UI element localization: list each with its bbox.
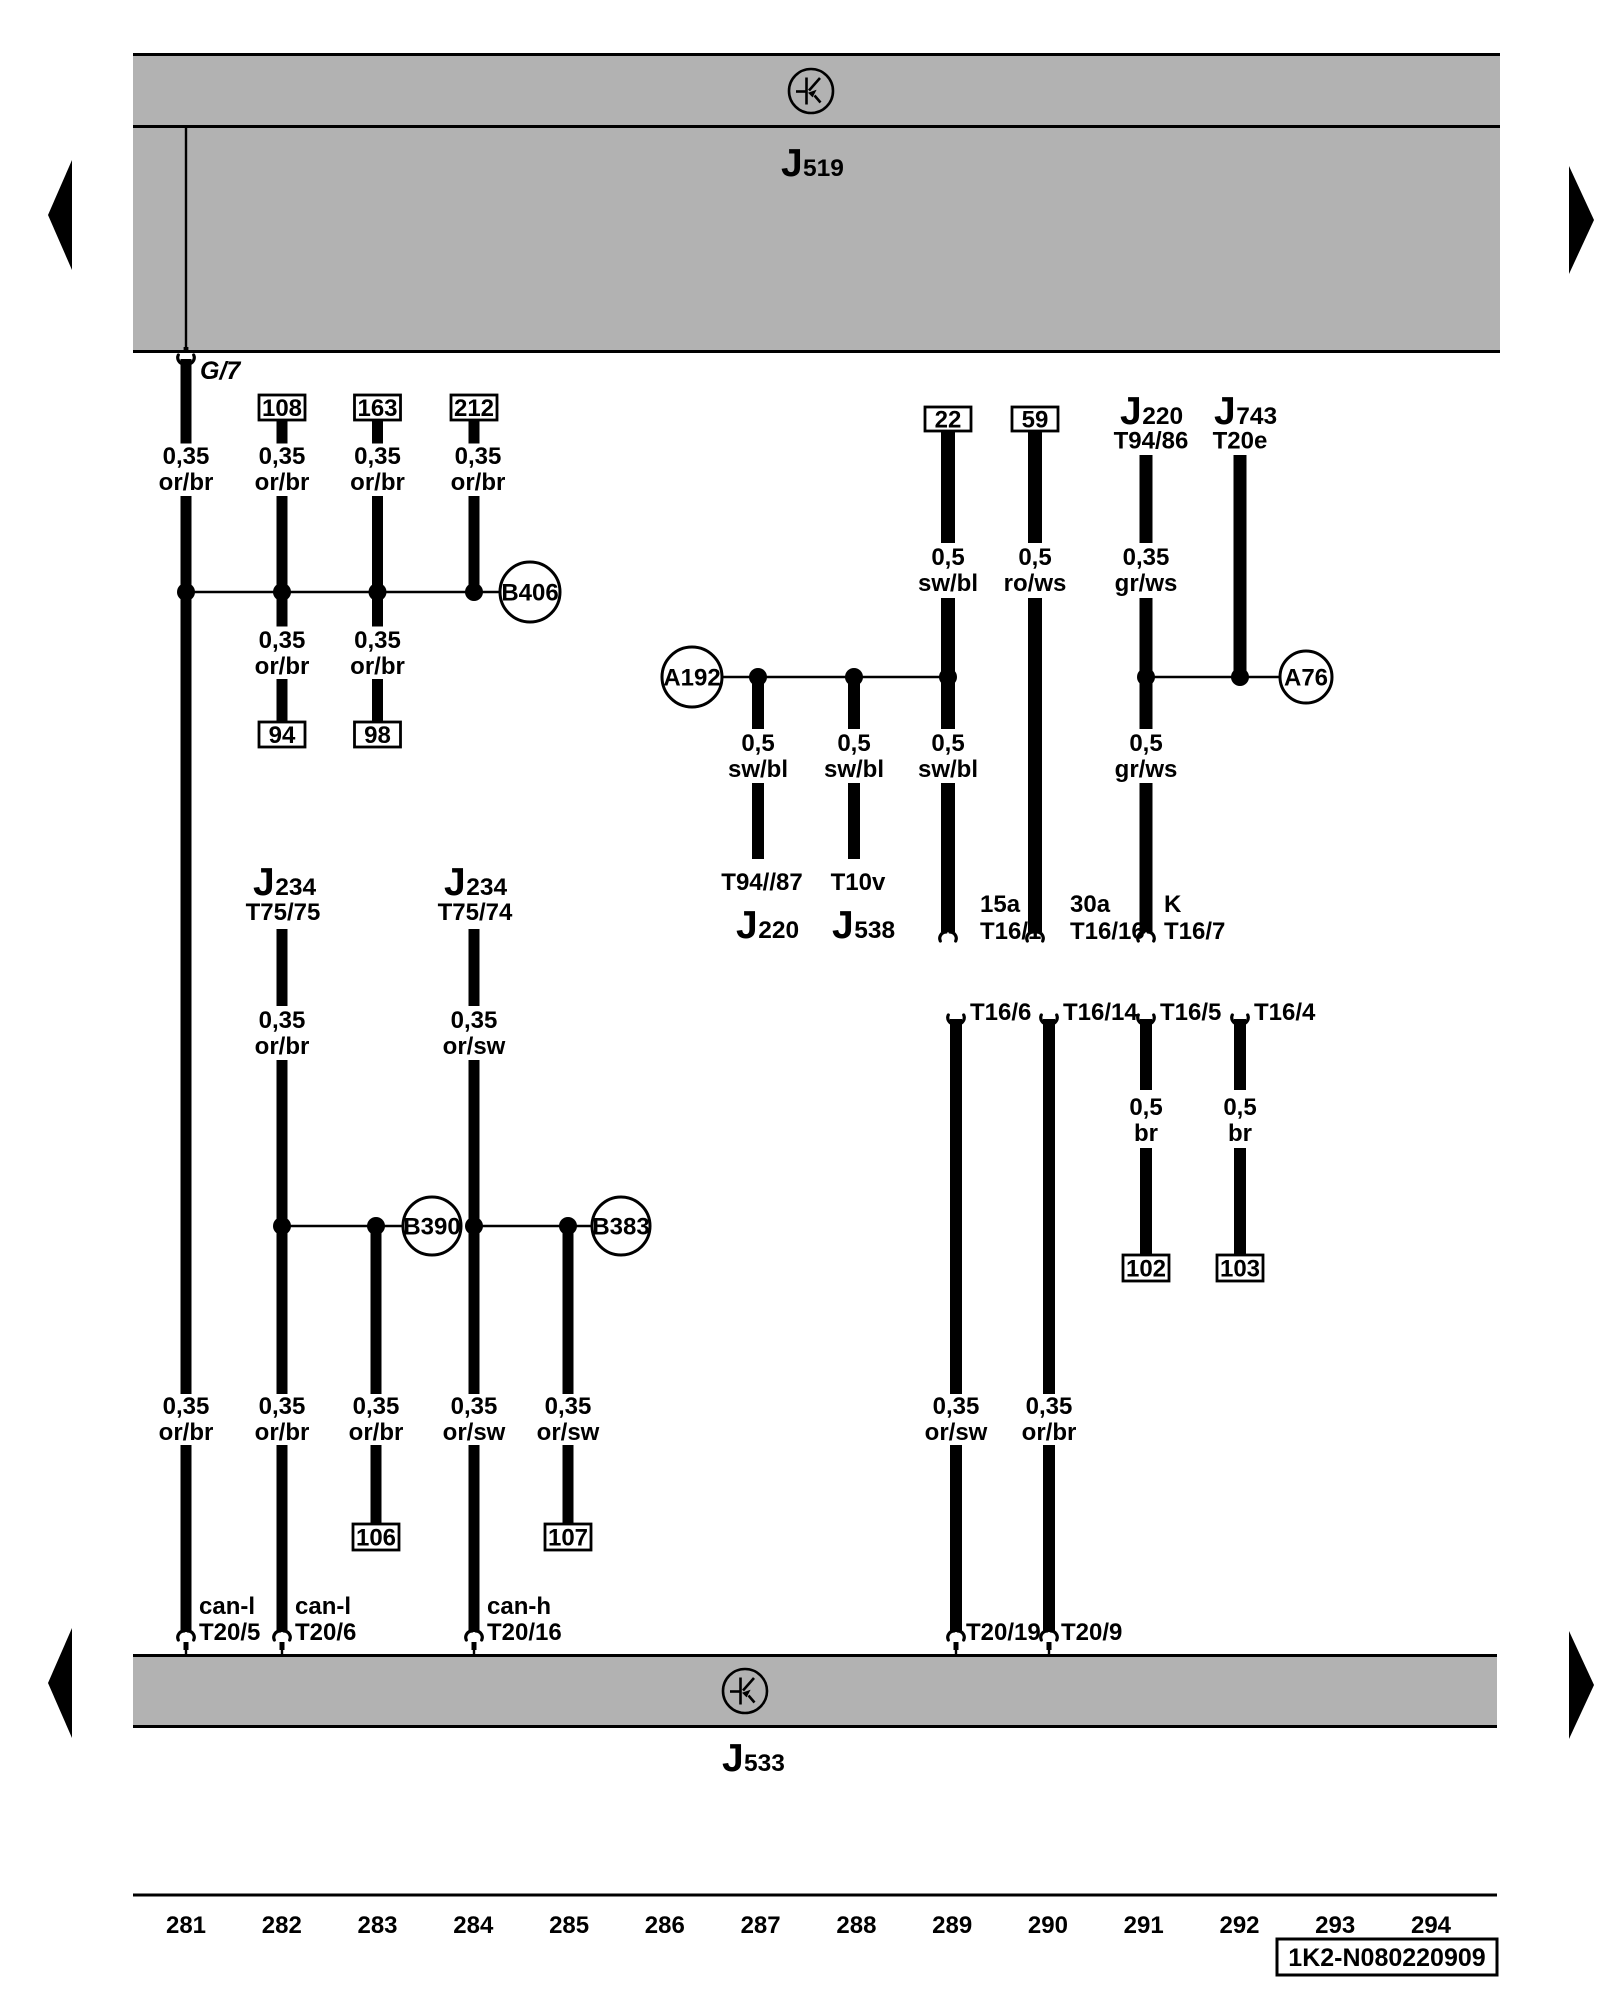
svg-text:G/7: G/7 (200, 357, 241, 385)
svg-text:743: 743 (1236, 403, 1277, 430)
svg-text:293: 293 (1315, 1912, 1355, 1939)
svg-text:T20/9: T20/9 (1061, 1619, 1122, 1646)
svg-text:T16/4: T16/4 (1254, 999, 1316, 1026)
svg-text:J: J (253, 861, 275, 904)
svg-text:284: 284 (453, 1912, 494, 1939)
svg-text:or/br: or/br (255, 469, 310, 496)
svg-text:30a: 30a (1070, 891, 1111, 918)
svg-text:538: 538 (854, 917, 895, 944)
svg-text:or/br: or/br (255, 1033, 310, 1060)
svg-text:can-l: can-l (295, 1593, 351, 1620)
svg-text:T75/74: T75/74 (438, 899, 513, 926)
svg-text:103: 103 (1220, 1256, 1260, 1283)
svg-text:can-l: can-l (199, 1593, 255, 1620)
svg-text:B383: B383 (592, 1214, 649, 1241)
svg-text:T20e: T20e (1213, 428, 1268, 455)
svg-text:0,35: 0,35 (1026, 1393, 1073, 1420)
svg-text:J: J (722, 1737, 744, 1780)
svg-text:108: 108 (262, 395, 302, 422)
svg-text:0,35: 0,35 (933, 1393, 980, 1420)
svg-text:A76: A76 (1284, 665, 1328, 692)
svg-text:281: 281 (166, 1912, 206, 1939)
svg-text:285: 285 (549, 1912, 589, 1939)
svg-text:sw/bl: sw/bl (918, 570, 978, 597)
svg-text:T16/14: T16/14 (1063, 999, 1138, 1026)
svg-text:0,5: 0,5 (741, 730, 774, 757)
svg-text:or/br: or/br (255, 653, 310, 680)
svg-text:K: K (1164, 891, 1182, 918)
svg-text:163: 163 (357, 395, 397, 422)
svg-text:or/sw: or/sw (537, 1419, 600, 1446)
svg-text:0,35: 0,35 (1123, 544, 1170, 571)
svg-text:0,5: 0,5 (931, 730, 964, 757)
svg-text:gr/ws: gr/ws (1115, 756, 1178, 783)
svg-text:or/sw: or/sw (443, 1419, 506, 1446)
svg-text:290: 290 (1028, 1912, 1068, 1939)
svg-text:0,5: 0,5 (837, 730, 870, 757)
svg-text:0,5: 0,5 (1129, 730, 1162, 757)
svg-text:0,35: 0,35 (451, 1393, 498, 1420)
svg-text:sw/bl: sw/bl (918, 756, 978, 783)
svg-text:or/br: or/br (159, 469, 214, 496)
svg-text:294: 294 (1411, 1912, 1452, 1939)
svg-text:102: 102 (1126, 1256, 1166, 1283)
svg-text:106: 106 (356, 1525, 396, 1552)
svg-text:220: 220 (1142, 403, 1183, 430)
svg-text:or/sw: or/sw (443, 1033, 506, 1060)
svg-text:212: 212 (454, 395, 494, 422)
svg-text:286: 286 (645, 1912, 685, 1939)
svg-text:0,5: 0,5 (1129, 1094, 1162, 1121)
svg-text:or/br: or/br (350, 469, 405, 496)
svg-text:0,35: 0,35 (451, 1007, 498, 1034)
svg-text:J: J (444, 861, 466, 904)
svg-text:234: 234 (275, 874, 316, 901)
svg-text:0,35: 0,35 (259, 627, 306, 654)
svg-text:0,5: 0,5 (1223, 1094, 1256, 1121)
svg-text:or/sw: or/sw (925, 1419, 988, 1446)
svg-text:T94/86: T94/86 (1114, 428, 1189, 455)
svg-text:0,5: 0,5 (1018, 544, 1051, 571)
svg-text:0,35: 0,35 (163, 443, 210, 470)
svg-text:or/br: or/br (255, 1419, 310, 1446)
svg-text:T16/7: T16/7 (1164, 918, 1225, 945)
svg-text:0,35: 0,35 (353, 1393, 400, 1420)
svg-text:ro/ws: ro/ws (1004, 570, 1067, 597)
svg-text:291: 291 (1124, 1912, 1164, 1939)
svg-text:T94//87: T94//87 (721, 869, 802, 896)
svg-text:A192: A192 (663, 665, 720, 692)
svg-text:gr/ws: gr/ws (1115, 570, 1178, 597)
svg-text:98: 98 (364, 722, 391, 749)
svg-text:or/br: or/br (350, 653, 405, 680)
svg-text:J: J (832, 904, 854, 947)
svg-text:0,35: 0,35 (259, 1007, 306, 1034)
svg-text:107: 107 (548, 1525, 588, 1552)
svg-text:can-h: can-h (487, 1593, 551, 1620)
svg-text:B390: B390 (403, 1214, 460, 1241)
svg-text:283: 283 (357, 1912, 397, 1939)
svg-text:94: 94 (269, 722, 296, 749)
svg-text:or/br: or/br (451, 469, 506, 496)
svg-text:J: J (781, 142, 803, 185)
svg-text:T20/6: T20/6 (295, 1619, 356, 1646)
svg-text:288: 288 (836, 1912, 876, 1939)
svg-text:sw/bl: sw/bl (824, 756, 884, 783)
svg-text:T16/6: T16/6 (970, 999, 1031, 1026)
svg-text:282: 282 (262, 1912, 302, 1939)
svg-text:sw/bl: sw/bl (728, 756, 788, 783)
svg-text:T16/16: T16/16 (1070, 918, 1145, 945)
svg-text:287: 287 (741, 1912, 781, 1939)
svg-text:0,35: 0,35 (259, 443, 306, 470)
svg-text:0,35: 0,35 (354, 627, 401, 654)
svg-text:519: 519 (803, 155, 844, 182)
svg-text:292: 292 (1219, 1912, 1259, 1939)
svg-text:T75/75: T75/75 (246, 899, 321, 926)
svg-text:or/br: or/br (349, 1419, 404, 1446)
svg-text:0,5: 0,5 (931, 544, 964, 571)
svg-text:0,35: 0,35 (163, 1393, 210, 1420)
svg-text:T20/19: T20/19 (966, 1619, 1041, 1646)
svg-text:or/br: or/br (1022, 1419, 1077, 1446)
svg-text:0,35: 0,35 (545, 1393, 592, 1420)
svg-text:0,35: 0,35 (455, 443, 502, 470)
svg-text:T20/16: T20/16 (487, 1619, 562, 1646)
svg-text:or/br: or/br (159, 1419, 214, 1446)
svg-text:533: 533 (744, 1750, 785, 1777)
svg-text:59: 59 (1022, 407, 1049, 434)
svg-text:234: 234 (466, 874, 507, 901)
svg-text:T16/5: T16/5 (1160, 999, 1221, 1026)
svg-text:br: br (1228, 1120, 1252, 1147)
svg-text:J: J (736, 904, 758, 947)
svg-text:T10v: T10v (831, 869, 886, 896)
svg-text:br: br (1134, 1120, 1158, 1147)
svg-text:0,35: 0,35 (354, 443, 401, 470)
svg-text:0,35: 0,35 (259, 1393, 306, 1420)
svg-text:289: 289 (932, 1912, 972, 1939)
svg-text:15a: 15a (980, 891, 1021, 918)
svg-text:B406: B406 (501, 580, 558, 607)
svg-text:T20/5: T20/5 (199, 1619, 260, 1646)
svg-text:1K2-N080220909: 1K2-N080220909 (1288, 1944, 1485, 1972)
svg-text:22: 22 (935, 407, 962, 434)
svg-text:220: 220 (758, 917, 799, 944)
